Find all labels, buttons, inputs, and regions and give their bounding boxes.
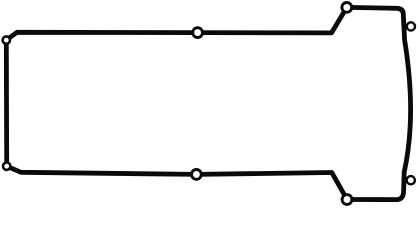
node: bolt hole right-lower [407, 176, 415, 184]
node: bolt hole right-upper [407, 22, 415, 30]
node: bolt hole top-left [3, 36, 10, 43]
wire: gasket outer contour [6, 7, 410, 199]
node: bolt hole bottom-left [3, 163, 10, 170]
node: bolt hole bottom-right [342, 195, 352, 205]
node: bolt hole top-right [342, 3, 352, 13]
node: bolt hole bottom-middle [192, 170, 202, 180]
node: bolt hole top-middle [193, 28, 203, 38]
